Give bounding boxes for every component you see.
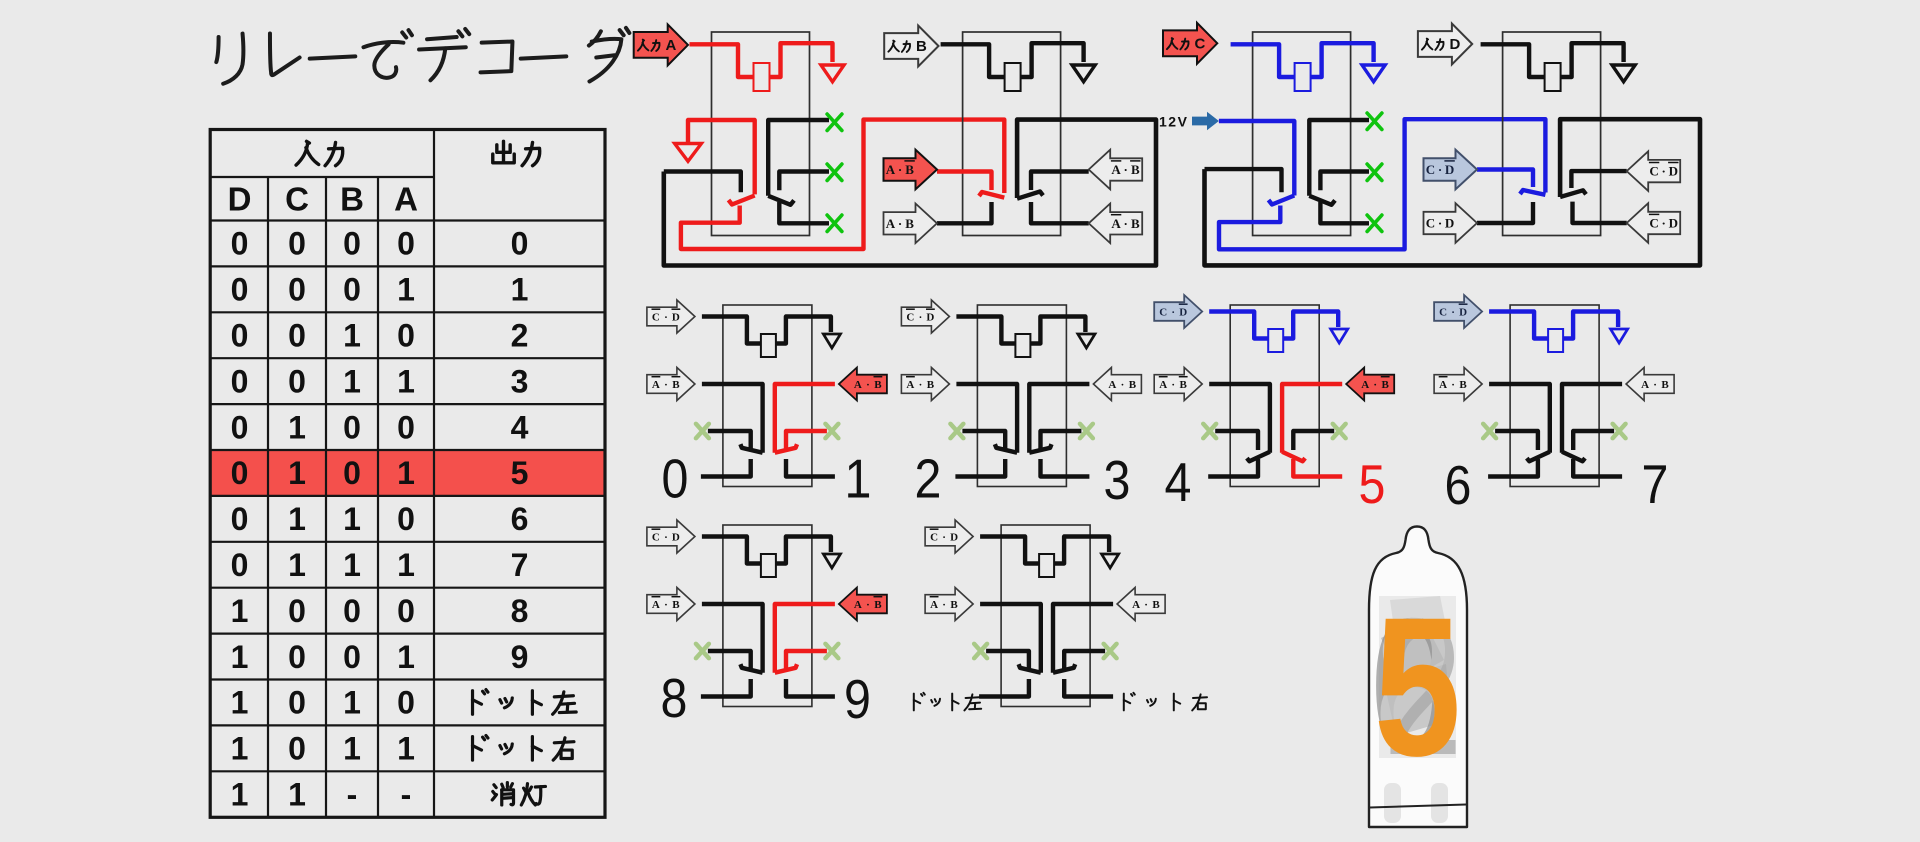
svg-text:·: ·: [1124, 162, 1128, 177]
output arrow A AND B: [884, 204, 938, 244]
svg-text:·: ·: [1438, 216, 1442, 231]
wire: C AND not-D from NC contact to output arrow (blue): [1477, 170, 1533, 188]
cell01 right NO stub and lamp wire: [786, 459, 835, 477]
celldots right armature (open): [1053, 664, 1075, 673]
cell23 coil: [1015, 334, 1030, 357]
cell45 left NO stub and lamp wire: [1208, 459, 1258, 477]
svg-text:A: A: [1132, 599, 1140, 611]
cell89 left cut mark: [696, 644, 709, 658]
cell89 coil: [761, 554, 776, 577]
svg-text:·: ·: [1144, 599, 1148, 611]
relay U-D right NO stub to not-C AND D arrow: [1573, 202, 1627, 223]
cell89 right armature (open): [775, 664, 797, 673]
cell01 left feed arrow: [647, 368, 695, 401]
svg-text:A: A: [1108, 379, 1116, 391]
svg-text:·: ·: [1373, 379, 1377, 391]
relay U-C box: [1253, 32, 1351, 236]
relay U-D left armature (released, blue C path): [1520, 190, 1545, 195]
wire: C output from U-C NO contact to U-D common (blue): [1219, 119, 1545, 249]
cell01 left NC stub to cut mark: [708, 431, 751, 450]
svg-text:A: A: [1439, 379, 1447, 391]
relay U-A coil wire: [690, 44, 754, 77]
cell01 left NO stub and lamp wire: [701, 459, 751, 477]
svg-text:B: B: [1131, 162, 1140, 177]
12V supply arrow (steel blue): [1192, 112, 1219, 130]
svg-text:1: 1: [397, 455, 415, 491]
svg-text:1: 1: [343, 547, 361, 583]
cell01 left common wire: [702, 384, 763, 453]
svg-text:B: B: [1180, 379, 1188, 391]
svg-text:D: D: [1669, 216, 1678, 231]
relay U-D left NO stub to C AND D arrow: [1477, 202, 1533, 223]
svg-text:8: 8: [661, 667, 688, 729]
cell45 right armature (closed): [1282, 452, 1305, 462]
svg-text:0: 0: [511, 226, 529, 262]
cell67 left common wire: [1489, 384, 1550, 453]
relay U-A left NC stub from 12V rail: [664, 172, 741, 193]
output arrow C AND not-D (active light blue): [1424, 150, 1478, 190]
relay U-B coil wire: [941, 44, 1005, 77]
svg-text:4: 4: [1165, 451, 1192, 513]
cell67 coil wire: [1489, 312, 1548, 339]
celldots ground arrow: [1102, 554, 1119, 568]
svg-text:0: 0: [343, 455, 361, 491]
svg-text:A: A: [1159, 379, 1167, 391]
svg-text:0: 0: [397, 318, 415, 354]
svg-text:B: B: [1661, 379, 1669, 391]
cell45 coil: [1268, 329, 1283, 352]
celldots right feed arrow: [1117, 588, 1165, 621]
svg-text:D: D: [1445, 216, 1454, 231]
label dot-left: [914, 693, 925, 711]
svg-text:1: 1: [397, 363, 415, 399]
svg-text:1: 1: [343, 501, 361, 537]
svg-text:·: ·: [898, 162, 902, 177]
svg-text:1: 1: [397, 272, 415, 308]
cell45 select arrow C AND not-D (light blue): [1154, 295, 1202, 328]
relay U-C left common from 12V arrow (blue): [1219, 121, 1294, 196]
relay U-B left NO stub to A AND B arrow: [937, 202, 992, 223]
svg-text:C: C: [930, 531, 938, 543]
cell67 left NC stub to cut mark: [1495, 431, 1538, 450]
relay U-A box: [712, 32, 810, 236]
svg-text:1: 1: [397, 731, 415, 767]
svg-text:B: B: [874, 379, 882, 391]
svg-text:B: B: [1382, 379, 1390, 391]
wire: A AND not-B from NC contact to output arrow (red): [937, 172, 992, 191]
cell23 left feed arrow: [901, 368, 949, 401]
cell67 right cut mark: [1613, 424, 1626, 438]
svg-text:1: 1: [288, 777, 306, 813]
relay U-A right NO stub to cut mark: [779, 202, 829, 223]
relay U-B ground arrow: [1072, 65, 1095, 82]
cell45 right NO stub and lamp wire: [1293, 459, 1342, 477]
svg-text:0: 0: [343, 593, 361, 629]
svg-text:D: D: [1459, 306, 1467, 318]
cell23 left cut mark: [950, 424, 963, 438]
svg-text:0: 0: [231, 318, 249, 354]
cell01 coil wire: [702, 317, 761, 344]
cell89 select arrow: [647, 520, 695, 553]
cell01 right NC stub to cut mark: [786, 431, 827, 450]
svg-text:·: ·: [664, 311, 668, 323]
relay U-A left armature (energized): [729, 196, 755, 205]
svg-text:B: B: [1152, 599, 1160, 611]
nixie tube cathode mesh patches: [1381, 618, 1444, 684]
svg-text:A: A: [1111, 216, 1121, 231]
svg-text:A: A: [854, 599, 862, 611]
title text: relay de decoder (katakana): [216, 28, 629, 84]
svg-text:·: ·: [1438, 162, 1442, 177]
cell45 right cut mark: [1333, 424, 1346, 438]
cut mark X3 of relay U-C: [1367, 215, 1382, 231]
relay U-C coil wire: [1231, 44, 1295, 77]
svg-text:·: ·: [866, 599, 870, 611]
output arrow A AND not-B (active red): [884, 150, 938, 190]
cell45 right NC stub to cut mark: [1293, 431, 1334, 450]
table grid: [210, 130, 605, 818]
svg-text:·: ·: [1662, 216, 1666, 231]
svg-text:-: -: [401, 777, 412, 813]
cell45 ground arrow: [1331, 329, 1348, 343]
relay U-D coil: [1545, 63, 1561, 91]
svg-text:B: B: [950, 599, 958, 611]
cell45 left feed arrow: [1154, 368, 1202, 401]
relay U-D box: [1503, 32, 1601, 236]
cell89 coil wire: [702, 537, 761, 564]
svg-text:1: 1: [231, 593, 249, 629]
relay U-C coil: [1295, 63, 1311, 91]
svg-text:1: 1: [288, 547, 306, 583]
cell67 right NO stub and lamp wire: [1573, 459, 1622, 477]
svg-text:0: 0: [343, 409, 361, 445]
cell45 left NC stub to cut mark: [1215, 431, 1258, 450]
cell01 coil: [761, 334, 776, 357]
svg-text:C: C: [1159, 306, 1167, 318]
input B arrow: [884, 26, 938, 67]
svg-text:1: 1: [511, 272, 529, 308]
cell89 right NC stub to cut mark: [786, 651, 827, 670]
svg-text:8: 8: [511, 593, 529, 629]
svg-text:1: 1: [397, 639, 415, 675]
svg-text:D: D: [950, 531, 958, 543]
svg-text:C: C: [1426, 162, 1435, 177]
svg-text:2: 2: [915, 448, 942, 510]
svg-text:·: ·: [1662, 164, 1666, 179]
table header output label: [493, 141, 514, 162]
relay U-B box: [963, 32, 1061, 236]
cell01 left cut mark: [696, 424, 709, 438]
svg-text:2: 2: [511, 318, 529, 354]
svg-text:·: ·: [942, 531, 946, 543]
svg-text:6: 6: [1445, 454, 1472, 516]
svg-text:-: -: [347, 777, 358, 813]
cell89 right common wire: [775, 604, 835, 673]
svg-text:B: B: [1131, 216, 1140, 231]
cut mark X1 of relay U-C: [1367, 113, 1382, 129]
12V supply rail enclosure around relays A and B: [664, 120, 1156, 266]
cell45 right common wire: [1282, 384, 1342, 453]
svg-text:A: A: [854, 379, 862, 391]
svg-text:B: B: [340, 181, 364, 218]
relay U-C right common from cut mark: [1309, 120, 1369, 196]
cell67 right common wire: [1562, 384, 1622, 453]
svg-text:0: 0: [343, 226, 361, 262]
input D arrow: [1418, 24, 1472, 65]
cell67 coil: [1548, 329, 1563, 352]
svg-text:1: 1: [845, 448, 872, 510]
svg-text:D: D: [1669, 164, 1678, 179]
svg-text:0: 0: [397, 501, 415, 537]
relay U-C right armature (energized): [1309, 196, 1335, 205]
cell89 right feed arrow: [839, 588, 887, 621]
svg-text:D: D: [926, 311, 934, 323]
svg-text:C: C: [1195, 36, 1206, 53]
svg-text:0: 0: [231, 409, 249, 445]
svg-text:0: 0: [231, 226, 249, 262]
cell89 right NO stub and lamp wire: [786, 679, 835, 697]
celldots left armature (open): [1019, 664, 1041, 673]
svg-text:A: A: [666, 37, 677, 54]
svg-text:D: D: [672, 311, 680, 323]
svg-text:0: 0: [662, 448, 689, 510]
cell67 left feed arrow: [1434, 368, 1482, 401]
svg-text:·: ·: [919, 379, 923, 391]
relay U-A ground arrow: [821, 65, 844, 82]
cut mark X3 of relay U-A: [827, 215, 842, 231]
svg-text:3: 3: [511, 363, 529, 399]
cell45 right feed arrow: [1346, 368, 1394, 401]
relay U-D right armature (released): [1560, 190, 1586, 197]
svg-text:0: 0: [397, 409, 415, 445]
cell67 left cut mark: [1483, 424, 1496, 438]
cell23 left common wire: [956, 384, 1017, 453]
svg-text:1: 1: [288, 409, 306, 445]
cell01 box: [723, 305, 812, 487]
svg-text:B: B: [916, 38, 927, 55]
table highlight row 5 (0101): [210, 450, 605, 496]
celldots right NC stub to cut mark: [1064, 651, 1105, 670]
output arrow C AND D: [1424, 203, 1478, 243]
svg-text:B: B: [874, 599, 882, 611]
svg-text:·: ·: [664, 531, 668, 543]
relay U-C ground arrow: [1362, 65, 1385, 82]
input C arrow: [1163, 23, 1217, 64]
svg-text:7: 7: [511, 547, 529, 583]
nixie tube stacked cathode digits: [1370, 580, 1462, 795]
relay U-D ground arrow: [1612, 65, 1635, 82]
cell45 left armature (closed): [1247, 452, 1270, 462]
relay U-A right common from cut mark: [768, 120, 829, 196]
svg-text:C: C: [906, 311, 914, 323]
svg-text:C: C: [285, 181, 309, 218]
celldots right common wire: [1053, 604, 1113, 673]
output arrow not-C AND D: [1627, 203, 1681, 243]
cell67 left NO stub and lamp wire: [1488, 459, 1538, 477]
relay U-B right NO stub to not-A AND B arrow: [1031, 202, 1089, 223]
cell01 right cut mark: [825, 424, 838, 438]
svg-text:·: ·: [919, 311, 923, 323]
celldots left NO stub and lamp wire: [979, 679, 1029, 697]
celldots left feed arrow: [925, 588, 973, 621]
relay U-A coil: [754, 63, 770, 91]
svg-text:·: ·: [1121, 379, 1125, 391]
cell45 left common wire: [1209, 384, 1270, 453]
svg-text:·: ·: [1451, 379, 1455, 391]
svg-text:B: B: [1129, 379, 1137, 391]
cell01 left armature (open): [740, 444, 762, 453]
svg-text:A: A: [652, 599, 660, 611]
svg-text:1: 1: [288, 455, 306, 491]
relay U-A not-A output ground arrow (red): [675, 144, 702, 162]
svg-text:·: ·: [942, 599, 946, 611]
output arrow not-C AND not-D: [1627, 151, 1681, 191]
cell89 right cut mark: [825, 644, 838, 658]
nixie tube base seam: [1370, 805, 1466, 808]
cell01 ground arrow: [823, 334, 840, 348]
svg-text:D: D: [1179, 306, 1187, 318]
svg-text:0: 0: [231, 501, 249, 537]
svg-text:9: 9: [844, 668, 871, 730]
svg-text:·: ·: [664, 599, 668, 611]
relay U-C right NC stub to cut mark: [1320, 172, 1369, 191]
svg-text:1: 1: [231, 731, 249, 767]
cell23 right common wire: [1029, 384, 1089, 453]
svg-text:·: ·: [1171, 306, 1175, 318]
cut mark X2 of relay U-A: [827, 164, 842, 180]
cell89 left feed arrow: [647, 588, 695, 621]
cell89 left common wire: [702, 604, 763, 673]
svg-text:A: A: [652, 379, 660, 391]
svg-text:B: B: [1459, 379, 1467, 391]
cell23 ground arrow: [1078, 334, 1095, 348]
svg-text:C: C: [652, 311, 660, 323]
cell01 right armature (open): [775, 444, 797, 453]
svg-text:0: 0: [288, 593, 306, 629]
cell23 select arrow: [901, 300, 949, 333]
relay U-C left armature (energized): [1269, 196, 1295, 205]
relay U-B left armature (released, red A path): [979, 192, 1004, 198]
svg-text:0: 0: [288, 272, 306, 308]
svg-text:D: D: [1445, 162, 1454, 177]
svg-text:0: 0: [288, 363, 306, 399]
cell89 ground arrow: [823, 554, 840, 568]
cell89 left NC stub to cut mark: [708, 651, 751, 670]
svg-text:1: 1: [231, 685, 249, 721]
svg-text:1: 1: [343, 685, 361, 721]
celldots left cut mark: [974, 644, 987, 658]
celldots box: [1001, 525, 1090, 707]
cell89 left armature (open): [740, 664, 762, 673]
cell67 ground arrow: [1611, 329, 1628, 343]
svg-text:0: 0: [288, 318, 306, 354]
relay U-A left common (red): [688, 120, 755, 194]
svg-text:D: D: [1450, 36, 1461, 53]
svg-text:1: 1: [231, 777, 249, 813]
svg-text:0: 0: [343, 272, 361, 308]
svg-text:0: 0: [288, 731, 306, 767]
svg-text:A: A: [906, 379, 914, 391]
svg-text:A: A: [1641, 379, 1649, 391]
celldots right cut mark: [1104, 644, 1117, 658]
relay U-C right NO stub to cut mark: [1320, 202, 1369, 223]
nixie tube envelope: [1369, 527, 1467, 828]
cell45 coil wire: [1209, 312, 1268, 339]
svg-text:B: B: [672, 599, 680, 611]
celldots right NO stub and lamp wire: [1064, 679, 1113, 697]
relay U-C left NC stub from 12V rail: [1205, 169, 1282, 192]
cell67 right feed arrow: [1626, 368, 1674, 401]
svg-text:A: A: [886, 216, 896, 231]
svg-text:0: 0: [231, 547, 249, 583]
svg-text:0: 0: [397, 685, 415, 721]
svg-text:7: 7: [1642, 453, 1669, 515]
celldots left NC stub to cut mark: [986, 651, 1029, 670]
svg-text:12V: 12V: [1159, 114, 1188, 130]
cell23 right feed arrow: [1093, 368, 1141, 401]
svg-text:5: 5: [1359, 453, 1386, 515]
label dot-right: [1124, 693, 1135, 711]
svg-text:6: 6: [511, 501, 529, 537]
svg-text:C: C: [1439, 306, 1447, 318]
input A arrow: [634, 24, 688, 65]
svg-text:1: 1: [343, 363, 361, 399]
svg-text:A: A: [1111, 162, 1121, 177]
cell23 left armature (open): [995, 444, 1017, 453]
svg-text:D: D: [672, 531, 680, 543]
celldots coil: [1039, 554, 1054, 577]
wire: A output from U-A NO contact to U-B common: [681, 120, 1004, 249]
relay U-D coil wire: [1481, 44, 1545, 77]
svg-text:0: 0: [231, 455, 249, 491]
cell89 left NO stub and lamp wire: [701, 679, 751, 697]
svg-text:C: C: [1426, 216, 1435, 231]
svg-text:1: 1: [343, 318, 361, 354]
svg-text:A: A: [886, 162, 896, 177]
cell23 left NO stub and lamp wire: [955, 459, 1005, 477]
svg-text:9: 9: [511, 639, 529, 675]
svg-text:·: ·: [1451, 306, 1455, 318]
svg-text:B: B: [905, 216, 914, 231]
svg-text:·: ·: [1124, 216, 1128, 231]
cell89 box: [723, 525, 812, 707]
svg-text:B: B: [927, 379, 935, 391]
cell23 coil wire: [956, 317, 1015, 344]
svg-text:0: 0: [288, 639, 306, 675]
svg-text:0: 0: [397, 226, 415, 262]
cell23 right armature (open): [1029, 444, 1051, 453]
celldots left common wire: [980, 604, 1041, 673]
cell23 right NC stub to cut mark: [1041, 431, 1082, 450]
svg-text:C: C: [1649, 216, 1658, 231]
svg-text:A: A: [1361, 379, 1369, 391]
svg-text:0: 0: [343, 639, 361, 675]
relay U-A right NC stub to cut mark: [779, 172, 829, 191]
cell01 select arrow: [647, 300, 695, 333]
output arrow not-A AND B: [1089, 204, 1143, 244]
cell45 box: [1230, 305, 1319, 487]
nixie tube inner structure: [1379, 596, 1456, 758]
svg-text:·: ·: [1653, 379, 1657, 391]
svg-text:4: 4: [511, 409, 529, 445]
celldots select arrow: [925, 520, 973, 553]
cut mark X1 of relay U-A: [827, 114, 842, 130]
12V supply rail enclosure around relays C and D: [1205, 119, 1701, 265]
table header input label: [296, 141, 319, 165]
cell23 right NO stub and lamp wire: [1041, 459, 1090, 477]
svg-text:·: ·: [866, 379, 870, 391]
svg-text:·: ·: [664, 379, 668, 391]
